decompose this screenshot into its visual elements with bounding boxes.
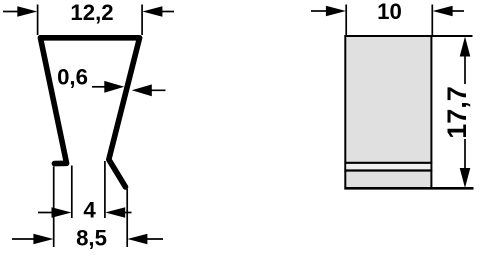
- side view top edge extended right: [431, 35, 472, 37]
- dimension 17,7 up arrow: [460, 37, 471, 57]
- 0,6 arrow pointing right at wall: [92, 86, 106, 88]
- side view body rectangle: [345, 36, 431, 188]
- extension line left foot outer: [53, 167, 55, 248]
- dimension 17,7 vertical line upper segment: [464, 54, 466, 84]
- dimension 4 right arrow: [124, 212, 132, 214]
- side view bottom edge extended right: [344, 187, 473, 190]
- svg-text:12,2: 12,2: [70, 0, 113, 25]
- extension line right of 10: [431, 5, 433, 36]
- svg-text:17,7: 17,7: [442, 86, 472, 139]
- svg-text:10: 10: [377, 0, 402, 24]
- extension line right foot inner: [104, 161, 106, 218]
- dimension 10 left arrow: [311, 10, 327, 12]
- side view seam line lower: [344, 169, 432, 171]
- dimension 8,5 right arrow: [146, 238, 163, 240]
- extension line left of 12,2: [37, 5, 39, 36]
- dimension 17,7 down arrow: [460, 168, 471, 188]
- dimension 4 left arrow: [38, 212, 53, 214]
- svg-text:4: 4: [83, 198, 96, 223]
- dimension 8,5 left arrow: [12, 238, 35, 240]
- dimension 12,2 right arrow: [161, 11, 174, 13]
- dimension 12,2 left arrow: [3, 11, 19, 13]
- side view light band between seam lines: [346, 164, 430, 170]
- side view seam line upper: [344, 162, 432, 164]
- 0,6 arrow pointing left at wall: [149, 89, 166, 91]
- dimension 17,7 vertical line lower segment: [464, 139, 466, 170]
- svg-text:0,6: 0,6: [57, 65, 88, 90]
- dimension 10 right arrow: [451, 10, 464, 12]
- extension line left of 10: [345, 5, 347, 36]
- clip body (front view): [40, 38, 139, 187]
- extension line right of 12,2: [141, 5, 143, 36]
- extension line left foot inner: [71, 166, 73, 219]
- extension line right foot outer: [126, 189, 128, 247]
- svg-text:8,5: 8,5: [76, 226, 107, 251]
